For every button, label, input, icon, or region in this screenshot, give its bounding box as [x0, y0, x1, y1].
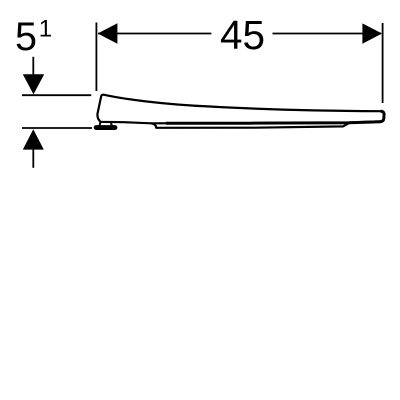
upper reference line [22, 94, 91, 96]
seat ring bottom line [151, 123, 349, 128]
seat outer profile [97, 95, 384, 124]
dimension line right segment [273, 33, 382, 35]
right extension line of 45 dimension [382, 23, 384, 103]
upper arrowhead pointing down [23, 74, 44, 94]
bumper base [94, 125, 118, 130]
lower dimension shaft [32, 149, 34, 168]
seat cover bottom edge emphasis [166, 111, 384, 123]
left extension line of 45 dimension [95, 23, 97, 92]
svg-text:5: 5 [15, 15, 37, 59]
bumper stem [100, 121, 112, 125]
left arrowhead pointing left [98, 23, 118, 44]
svg-text:1: 1 [39, 16, 52, 43]
svg-text:45: 45 [220, 12, 265, 58]
dimension line left segment [98, 33, 211, 35]
lower reference line [22, 127, 92, 129]
lower arrowhead pointing up [23, 129, 44, 149]
right arrowhead pointing right [362, 23, 382, 43]
upper dimension shaft (left vertical dim) [32, 57, 34, 76]
